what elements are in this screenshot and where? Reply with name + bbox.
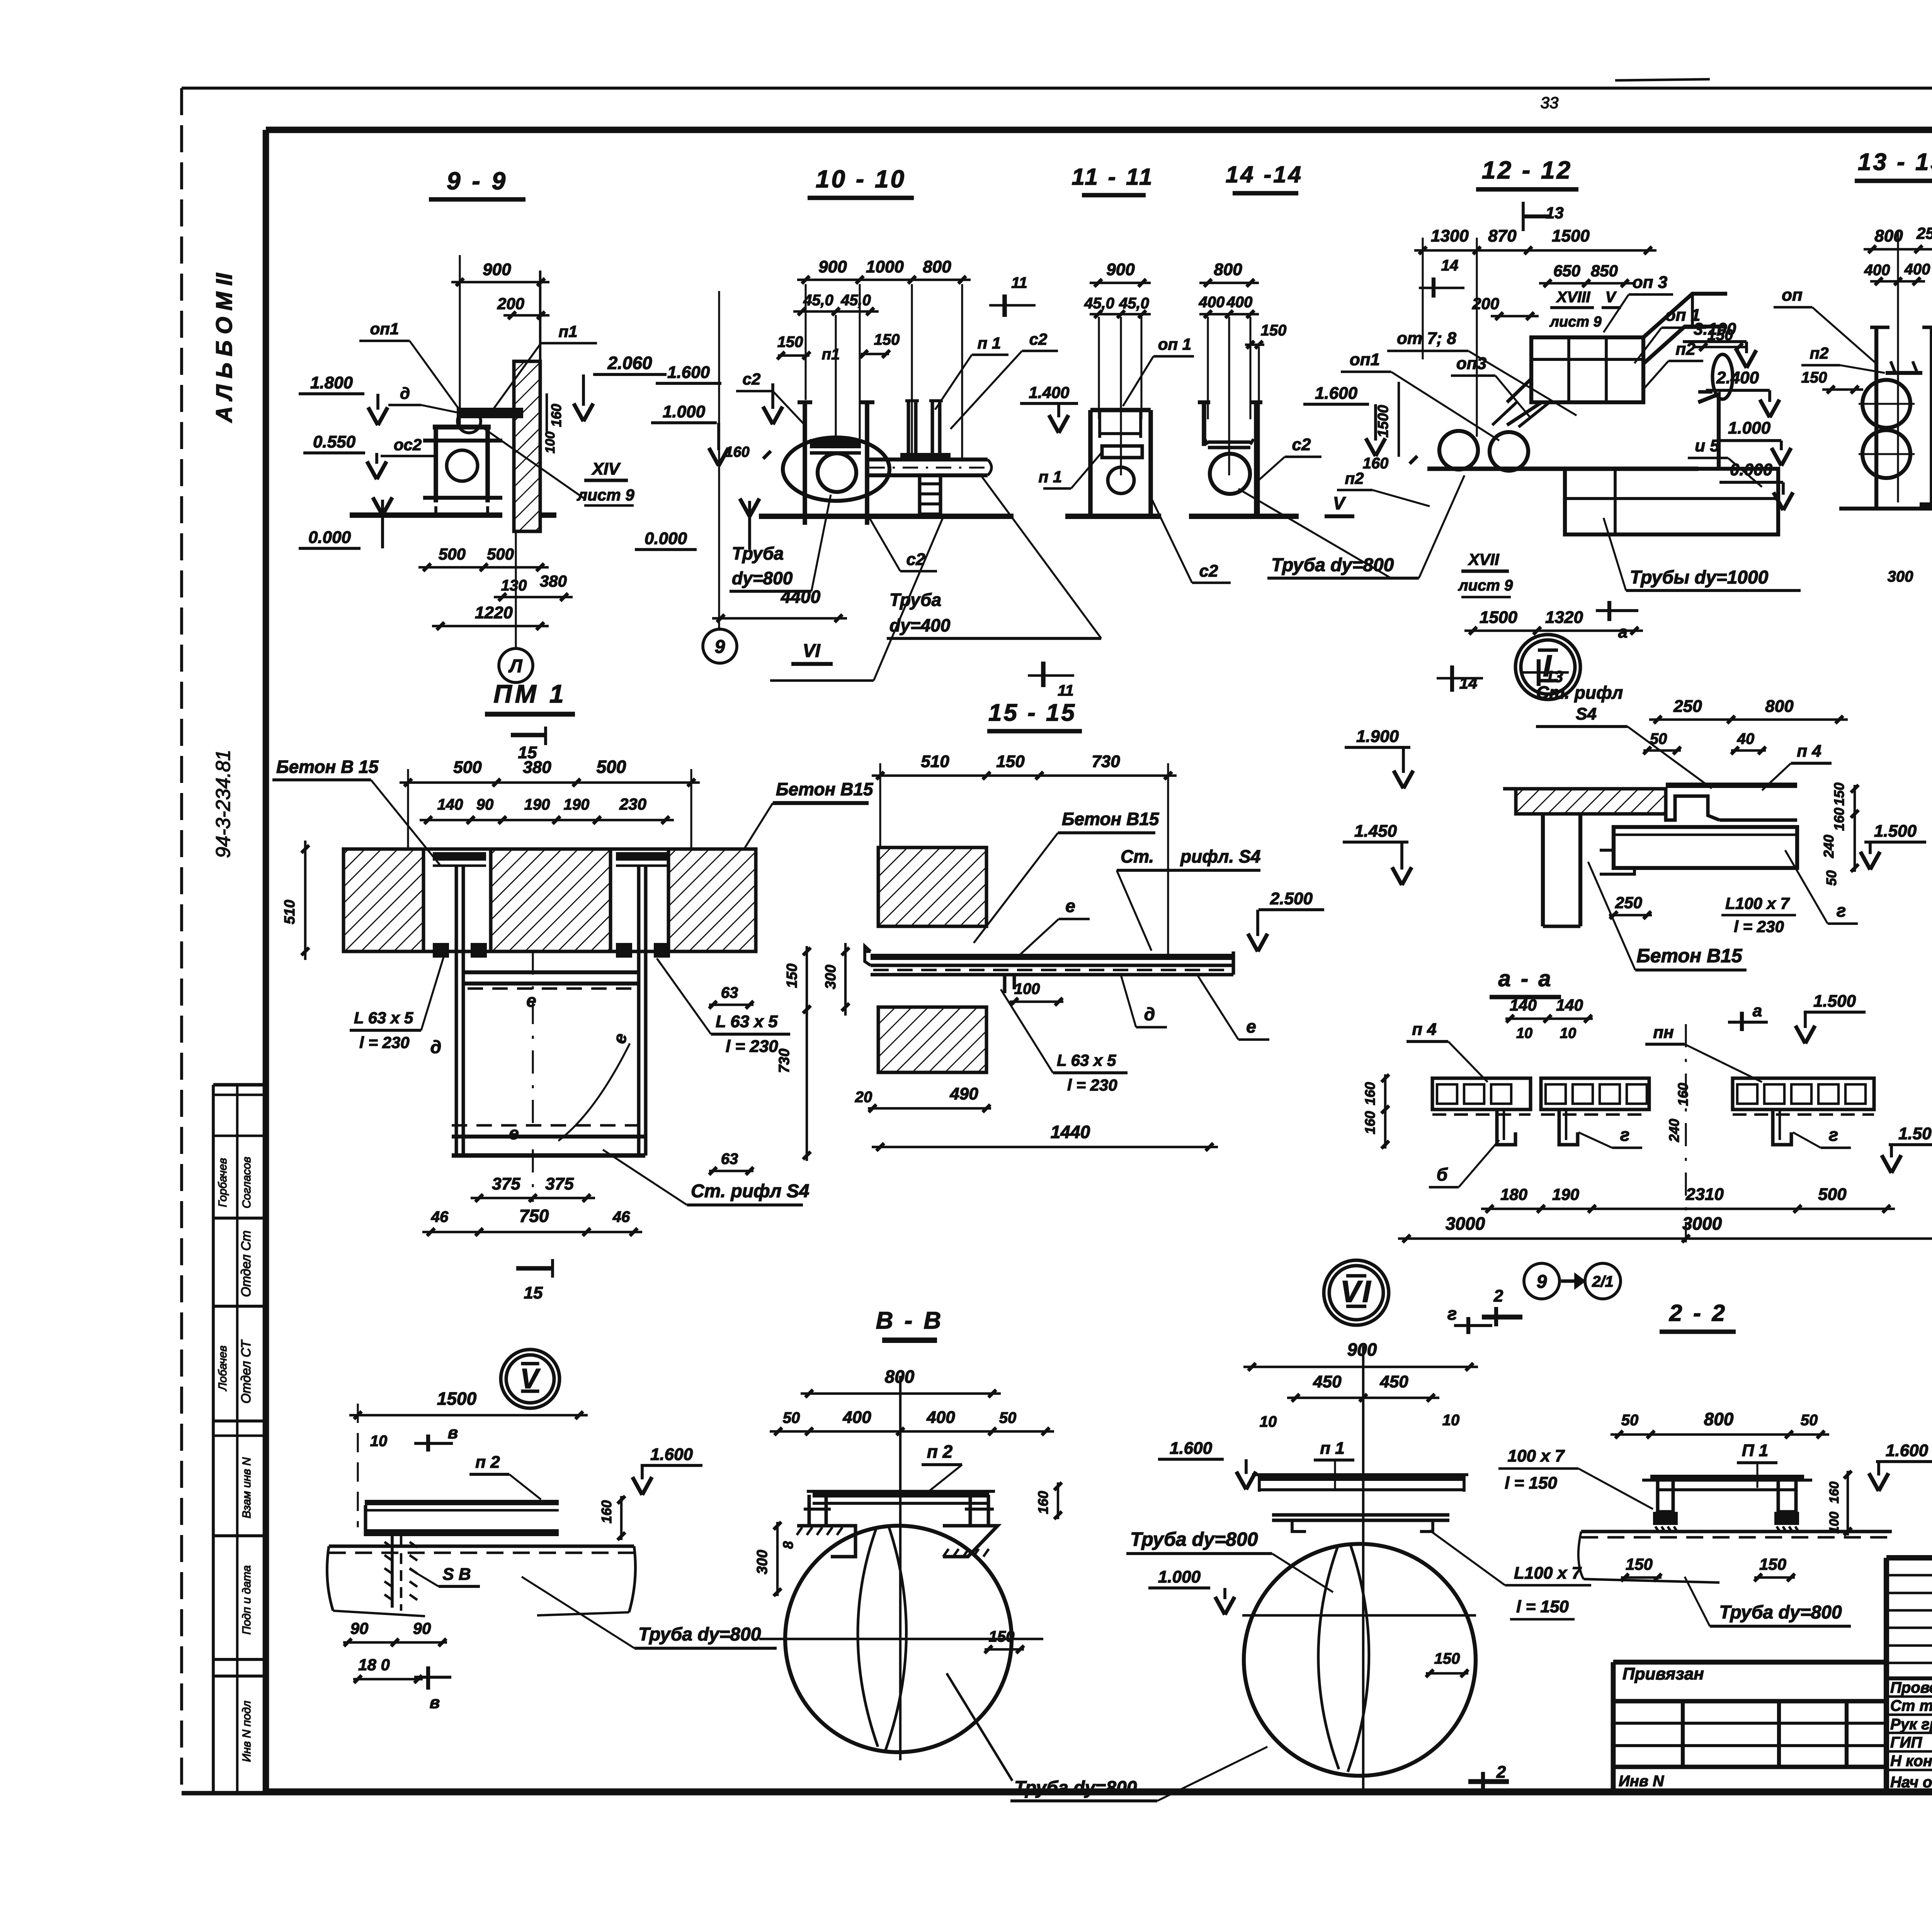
section a-a top dims	[1406, 992, 1866, 1082]
section 9-9 reference XIV	[479, 425, 634, 505]
detail I slab hatch and plates	[1503, 783, 1797, 820]
svg-text:д: д	[1144, 1004, 1155, 1024]
detail I bottom labels	[1588, 850, 1858, 970]
svg-text:п 4: п 4	[1797, 742, 1821, 761]
svg-text:40: 40	[1737, 730, 1755, 747]
svg-text:380: 380	[540, 572, 567, 590]
svg-text:Труба dу=800: Труба dу=800	[1014, 1778, 1137, 1798]
svg-text:от 7; 8: от 7; 8	[1397, 329, 1457, 348]
svg-text:190: 190	[524, 796, 550, 813]
svg-text:l = 230: l = 230	[1067, 1076, 1117, 1094]
svg-text:750: 750	[519, 1206, 549, 1226]
svg-text:п1: п1	[822, 346, 840, 363]
svg-text:160: 160	[1362, 1111, 1378, 1134]
svg-text:г: г	[1620, 1125, 1630, 1145]
section 2-2 ground	[1578, 1532, 1892, 1583]
svg-text:240: 240	[1821, 835, 1837, 858]
section 11-11 labels	[1020, 335, 1231, 583]
section V-V dims	[770, 1367, 1054, 1760]
detail VI medallion	[1324, 1260, 1389, 1325]
svg-text:ос2: ос2	[394, 436, 422, 454]
svg-text:Согласов: Согласов	[240, 1157, 253, 1208]
section 13-13 title	[1855, 149, 1932, 181]
svg-text:L 63 х 5: L 63 х 5	[1057, 1051, 1116, 1069]
svg-text:dу=800: dу=800	[732, 568, 793, 588]
svg-text:200: 200	[1472, 294, 1499, 313]
section 10-10 pipe labels	[712, 476, 1101, 638]
section 12-12 title	[1476, 156, 1578, 231]
svg-text:1500: 1500	[437, 1389, 477, 1409]
section 10-10 ladder	[920, 477, 940, 516]
svg-text:l = 150: l = 150	[1505, 1474, 1557, 1492]
bottom truba label left	[1010, 1747, 1267, 1801]
section mark g top	[1447, 1304, 1492, 1334]
svg-text:е: е	[526, 990, 536, 1011]
svg-text:850: 850	[1591, 262, 1618, 280]
svg-text:160: 160	[1831, 808, 1847, 831]
svg-text:и 5: и 5	[1695, 436, 1719, 455]
section 9-9 ground line	[350, 512, 556, 518]
section 14-14 frame	[1198, 402, 1262, 516]
svg-text:1.800: 1.800	[310, 373, 353, 392]
svg-text:15 - 15: 15 - 15	[988, 699, 1077, 726]
detail V top dims	[349, 1389, 588, 1527]
section 10-10 big pipe ellipse	[783, 437, 889, 501]
section 15-15 top dims	[872, 752, 1177, 958]
svg-text:Бетон В15: Бетон В15	[1062, 809, 1160, 829]
svg-text:50: 50	[1621, 1412, 1639, 1429]
svg-text:300: 300	[823, 965, 839, 989]
svg-text:0.550: 0.550	[313, 432, 356, 451]
section 10-10 posts p1 on pipe	[900, 401, 951, 459]
svg-text:оп 1: оп 1	[1158, 335, 1191, 353]
section 13-13 dims	[1864, 182, 1932, 502]
svg-text:400: 400	[842, 1408, 871, 1427]
svg-text:Взам инв N: Взам инв N	[240, 1457, 253, 1518]
detail VI dims	[1158, 1339, 1478, 1793]
svg-text:1.500: 1.500	[1813, 992, 1856, 1011]
section 12-12 lower labels	[1325, 320, 1801, 692]
axis bubble 9	[703, 629, 737, 663]
svg-text:V: V	[1605, 289, 1617, 306]
section a-a bottom dims	[1398, 1024, 1932, 1242]
svg-text:45,0: 45,0	[840, 292, 871, 309]
svg-text:Труба dу=800: Труба dу=800	[1719, 1602, 1842, 1623]
svg-text:е: е	[509, 1123, 519, 1143]
svg-text:9: 9	[1537, 1271, 1547, 1292]
svg-text:800: 800	[1765, 697, 1794, 716]
svg-text:с2: с2	[1292, 435, 1311, 454]
svg-text:200: 200	[497, 294, 524, 313]
section a-a hangers	[1497, 1110, 1791, 1145]
svg-text:Отдел СТ: Отдел СТ	[239, 1339, 253, 1404]
section 14-14 title	[1226, 162, 1303, 193]
PM1 slab with hatch	[344, 849, 756, 951]
svg-text:2310: 2310	[1685, 1185, 1724, 1204]
svg-text:180: 180	[1500, 1185, 1527, 1203]
svg-text:Инв N подл: Инв N подл	[240, 1701, 253, 1762]
svg-text:490: 490	[949, 1084, 978, 1103]
svg-text:l = 150: l = 150	[1516, 1597, 1569, 1616]
svg-text:XVIII: XVIII	[1556, 289, 1591, 306]
section V-V pipe leader	[947, 1673, 1012, 1781]
svg-text:Н контр: Н контр	[1890, 1753, 1932, 1770]
svg-text:Ст техн: Ст техн	[1890, 1697, 1932, 1714]
svg-text:Труба: Труба	[889, 590, 941, 610]
svg-text:Ст. рифл: Ст. рифл	[1536, 682, 1623, 703]
svg-text:510: 510	[282, 900, 298, 924]
svg-text:13 - 13: 13 - 13	[1858, 149, 1932, 175]
svg-text:XVII: XVII	[1468, 550, 1500, 568]
svg-text:0.000: 0.000	[308, 528, 351, 547]
left margin stamp table	[213, 1085, 266, 1792]
section 13-13 frame and circles	[1839, 327, 1932, 509]
svg-text:Провер.: Провер.	[1890, 1679, 1932, 1696]
svg-text:1.500: 1.500	[1898, 1124, 1932, 1143]
svg-text:50: 50	[999, 1409, 1017, 1426]
svg-text:900: 900	[1106, 260, 1135, 279]
svg-text:2: 2	[1493, 1287, 1503, 1305]
svg-text:оп1: оп1	[370, 320, 399, 338]
svg-text:46: 46	[431, 1208, 449, 1225]
detail I dims right	[1821, 783, 1926, 886]
section a-a title	[1490, 966, 1561, 997]
svg-text:150: 150	[1801, 369, 1827, 386]
svg-text:оп1: оп1	[1350, 350, 1380, 369]
svg-text:300: 300	[1888, 568, 1913, 585]
svg-text:XIV: XIV	[591, 459, 621, 478]
platform PM1 title	[485, 679, 575, 762]
section 10-10 c2 labels	[736, 330, 1058, 571]
svg-text:140: 140	[1510, 996, 1537, 1014]
svg-text:I: I	[1543, 648, 1553, 683]
svg-text:dу=400: dу=400	[889, 615, 951, 635]
svg-text:А Л Ь Б О М II: А Л Ь Б О М II	[212, 272, 237, 423]
svg-text:150: 150	[1261, 322, 1287, 339]
section mark 2 top	[1482, 1287, 1522, 1326]
svg-text:13: 13	[1546, 204, 1564, 222]
svg-text:50: 50	[1801, 1412, 1818, 1429]
svg-text:l = 230: l = 230	[359, 1033, 410, 1052]
svg-text:400: 400	[1226, 294, 1253, 311]
title block upper-left revision grid	[1886, 1558, 1932, 1792]
svg-text:450: 450	[1313, 1372, 1342, 1391]
svg-text:Бетон В15: Бетон В15	[776, 779, 874, 799]
section mark 2 bottom	[1468, 1763, 1509, 1791]
section 15-15 concrete label	[974, 809, 1160, 943]
svg-text:а - а: а - а	[1498, 966, 1553, 991]
svg-text:п 2: п 2	[927, 1441, 953, 1462]
title block outer box	[1886, 1558, 1932, 1792]
section 9-9 elevation marks	[299, 320, 667, 548]
section 15-15 wall hatch lower	[878, 1007, 986, 1072]
svg-text:160: 160	[725, 444, 749, 460]
section 10-10 pipe dy400 to right	[867, 459, 992, 475]
svg-text:3.100: 3.100	[1694, 320, 1736, 339]
svg-text:Нач отд: Нач отд	[1890, 1774, 1932, 1791]
svg-text:650: 650	[1553, 262, 1580, 280]
svg-text:Горбачев: Горбачев	[216, 1158, 229, 1207]
svg-text:1.900: 1.900	[1356, 727, 1399, 746]
svg-text:2/1: 2/1	[1592, 1273, 1614, 1290]
svg-text:500: 500	[487, 545, 514, 563]
PM1 concrete label left	[272, 757, 440, 866]
svg-text:10: 10	[1442, 1412, 1460, 1429]
svg-text:Труба dу=800: Труба dу=800	[1271, 555, 1394, 575]
detail V labels	[469, 1445, 702, 1499]
svg-text:160: 160	[1035, 1491, 1051, 1514]
svg-text:150: 150	[874, 331, 900, 348]
svg-text:800: 800	[1214, 260, 1242, 279]
svg-text:лист 9: лист 9	[1549, 314, 1601, 330]
svg-text:10: 10	[1560, 1025, 1576, 1041]
svg-text:50: 50	[783, 1409, 800, 1426]
section a-a deck slabs	[1432, 1078, 1874, 1115]
svg-text:800: 800	[923, 257, 951, 276]
axis bubble L	[499, 648, 533, 682]
PM1 bottom section mark 15	[516, 1259, 553, 1302]
svg-text:L100 х 7: L100 х 7	[1514, 1564, 1582, 1583]
svg-text:а: а	[1753, 1001, 1762, 1020]
svg-text:9: 9	[715, 636, 725, 657]
svg-text:500: 500	[1818, 1185, 1847, 1204]
svg-text:оп: оп	[1782, 286, 1803, 305]
svg-text:с2: с2	[743, 370, 761, 388]
svg-text:10: 10	[1260, 1413, 1277, 1430]
svg-text:Труба dу=800: Труба dу=800	[638, 1624, 761, 1645]
svg-text:L100 х 7: L100 х 7	[1725, 894, 1790, 912]
svg-text:730: 730	[1092, 752, 1120, 771]
svg-text:2.400: 2.400	[1716, 368, 1759, 387]
svg-text:1.600: 1.600	[650, 1445, 693, 1464]
svg-text:90: 90	[476, 796, 494, 813]
section 10-10 elevations	[635, 291, 782, 628]
detail V pipe	[327, 1546, 777, 1648]
svg-text:l = 230: l = 230	[1734, 917, 1784, 936]
svg-text:63: 63	[721, 984, 738, 1001]
svg-text:230: 230	[619, 795, 646, 813]
svg-text:63: 63	[721, 1150, 738, 1167]
svg-text:в: в	[448, 1423, 458, 1442]
PM1 bottom beam of channel	[452, 1123, 645, 1156]
section V-V side dims	[754, 1522, 796, 1596]
svg-text:п 2: п 2	[475, 1453, 500, 1472]
svg-text:1.000: 1.000	[1158, 1567, 1201, 1586]
svg-text:33: 33	[1541, 94, 1559, 112]
svg-text:190: 190	[1552, 1185, 1579, 1203]
svg-text:1440: 1440	[1051, 1122, 1090, 1142]
svg-text:VI: VI	[1340, 1274, 1372, 1309]
detail VI pipe circle	[1242, 1544, 1476, 1776]
svg-text:400: 400	[1864, 262, 1890, 279]
svg-text:11: 11	[1058, 682, 1074, 699]
section 9-9 vertical small dims	[543, 393, 564, 453]
svg-text:Лобачев: Лобачев	[216, 1346, 229, 1392]
svg-text:1.400: 1.400	[1029, 383, 1069, 402]
svg-text:1.500: 1.500	[1874, 822, 1917, 841]
section 10-10 top dims	[777, 257, 1036, 458]
detail VI angle labels	[1430, 1530, 1591, 1619]
section 15-15 platform	[865, 896, 1233, 993]
section 12-12 lower block	[1565, 354, 1778, 534]
svg-text:250: 250	[1916, 224, 1932, 242]
section mark a near detail I	[1596, 601, 1638, 642]
inner drawing frame	[266, 126, 1932, 1792]
svg-text:рифл. S4: рифл. S4	[1180, 846, 1260, 866]
svg-text:150: 150	[996, 752, 1025, 771]
svg-text:Подп и дата: Подп и дата	[240, 1565, 253, 1634]
section 9-9 bottom dims	[418, 545, 573, 630]
svg-text:9 - 9: 9 - 9	[447, 167, 508, 195]
svg-text:Рук груп: Рук груп	[1890, 1716, 1932, 1733]
detail I wall below	[1543, 814, 1580, 926]
svg-text:140: 140	[1556, 996, 1583, 1014]
svg-text:пн: пн	[1653, 1023, 1673, 1042]
svg-text:45,0: 45,0	[803, 292, 833, 309]
svg-text:V: V	[1333, 493, 1346, 513]
svg-text:Бетон В15: Бетон В15	[1636, 945, 1743, 967]
section 9-9 platform bracket	[457, 408, 523, 433]
svg-text:100: 100	[543, 432, 558, 454]
svg-text:240: 240	[1666, 1119, 1682, 1142]
svg-text:1.600: 1.600	[1170, 1439, 1213, 1458]
svg-text:150: 150	[784, 963, 800, 988]
svg-text:100: 100	[1827, 1512, 1842, 1534]
svg-text:50: 50	[1650, 730, 1667, 747]
svg-text:Бетон В 15: Бетон В 15	[276, 757, 379, 777]
svg-text:0.000: 0.000	[645, 529, 687, 548]
svg-text:900: 900	[818, 257, 847, 276]
svg-text:250: 250	[1615, 893, 1642, 912]
section 12-12 structure upper platform	[1492, 294, 1727, 427]
svg-text:15: 15	[524, 1283, 543, 1302]
svg-text:150: 150	[1831, 783, 1847, 806]
svg-text:1300: 1300	[1431, 226, 1469, 245]
PM1 bottom dims	[422, 951, 642, 1236]
section 10-10 support frame	[798, 402, 874, 525]
svg-text:оп 3: оп 3	[1633, 273, 1667, 292]
svg-text:п2: п2	[1345, 469, 1364, 487]
svg-text:п 1: п 1	[1320, 1439, 1345, 1458]
svg-text:400: 400	[926, 1408, 955, 1427]
svg-text:г: г	[1837, 900, 1846, 921]
svg-text:с2: с2	[1029, 330, 1048, 348]
section 13-13 labels	[1774, 281, 1932, 585]
view mark VI	[770, 518, 943, 681]
svg-text:L 63 х 5: L 63 х 5	[354, 1009, 413, 1027]
svg-text:Ст.: Ст.	[1121, 846, 1154, 866]
svg-text:ПМ 1: ПМ 1	[493, 679, 567, 708]
svg-text:45,0: 45,0	[1084, 295, 1114, 312]
svg-text:380: 380	[523, 758, 551, 777]
svg-text:8: 8	[780, 1541, 796, 1549]
svg-text:Инв N: Инв N	[1619, 1773, 1664, 1790]
svg-text:П 1: П 1	[1742, 1441, 1768, 1460]
svg-text:д: д	[430, 1037, 441, 1057]
section 10-10 title	[808, 165, 914, 198]
PM1 labels	[350, 955, 809, 1205]
svg-text:1500: 1500	[1375, 405, 1391, 438]
svg-text:а: а	[1618, 623, 1628, 642]
svg-text:46: 46	[612, 1208, 630, 1225]
svg-text:160: 160	[1827, 1482, 1842, 1504]
section V-V title	[876, 1307, 944, 1340]
svg-text:1.000: 1.000	[663, 402, 706, 421]
section 15-15 wall hatch upper	[878, 847, 986, 926]
svg-text:18 0: 18 0	[358, 1656, 390, 1674]
scan artifact dash top	[1615, 79, 1710, 80]
svg-text:п 1: п 1	[1039, 468, 1062, 486]
svg-text:160: 160	[1363, 455, 1389, 472]
svg-text:б: б	[1437, 1164, 1448, 1184]
svg-text:730: 730	[776, 1048, 793, 1073]
svg-text:20: 20	[855, 1089, 872, 1106]
svg-text:45,0: 45,0	[1119, 295, 1149, 312]
detail VI pipe label	[1126, 1528, 1333, 1615]
title block signature rows	[1886, 1679, 1932, 1791]
section 9-9 title	[429, 167, 526, 199]
svg-text:п 4: п 4	[1412, 1020, 1437, 1039]
svg-text:160: 160	[548, 404, 564, 427]
svg-text:Л: Л	[509, 656, 523, 676]
svg-text:г: г	[1447, 1304, 1457, 1324]
detail VI platform	[1252, 1475, 1468, 1532]
svg-text:400: 400	[1199, 294, 1225, 311]
svg-text:с2: с2	[1199, 562, 1218, 580]
section 14-14 labels and ground	[1189, 435, 1464, 578]
svg-text:4400: 4400	[781, 587, 821, 607]
svg-text:2.500: 2.500	[1270, 889, 1313, 908]
section 9-9 top dims	[451, 255, 549, 429]
svg-text:2.060: 2.060	[607, 353, 652, 373]
svg-text:Отдел Ст: Отдел Ст	[239, 1230, 253, 1297]
svg-text:Ст. рифл S4: Ст. рифл S4	[691, 1181, 809, 1201]
svg-text:S В: S В	[442, 1565, 471, 1584]
svg-text:3000: 3000	[1446, 1213, 1485, 1234]
PM1 right T-post	[616, 852, 670, 1156]
detail I medallion	[1515, 635, 1580, 699]
svg-text:Трубы dу=1000: Трубы dу=1000	[1630, 567, 1769, 588]
section 9-9 wall with hatch	[514, 271, 540, 531]
svg-text:160: 160	[599, 1500, 614, 1523]
PM1 left T-post	[433, 852, 487, 1156]
svg-text:ГИП: ГИП	[1890, 1734, 1922, 1751]
svg-text:l = 230: l = 230	[726, 1037, 778, 1056]
section V-V pipe circle	[759, 1526, 1043, 1752]
section 15-15 title	[987, 699, 1082, 731]
svg-text:500: 500	[597, 757, 626, 777]
small stamp table Privyazan	[1613, 1662, 1886, 1792]
detail I elevations left	[1343, 727, 1413, 885]
svg-text:оп3: оп3	[1456, 354, 1486, 373]
svg-text:Привязан: Привязан	[1622, 1664, 1704, 1683]
svg-text:1.450: 1.450	[1354, 822, 1397, 841]
svg-text:375: 375	[492, 1174, 520, 1193]
svg-text:130: 130	[501, 577, 527, 594]
svg-text:10: 10	[370, 1433, 388, 1450]
PM1 side dims	[282, 841, 811, 1175]
svg-text:е: е	[1246, 1016, 1256, 1036]
svg-text:2 - 2: 2 - 2	[1669, 1300, 1727, 1326]
detail V platform	[365, 1496, 625, 1540]
svg-text:п 1: п 1	[978, 334, 1001, 352]
svg-text:190: 190	[564, 796, 590, 813]
section 15-15 steel label	[1117, 846, 1260, 951]
svg-text:450: 450	[1379, 1372, 1408, 1391]
svg-text:S4: S4	[1576, 705, 1597, 723]
svg-text:п2: п2	[1810, 344, 1828, 362]
svg-text:300: 300	[754, 1550, 770, 1574]
